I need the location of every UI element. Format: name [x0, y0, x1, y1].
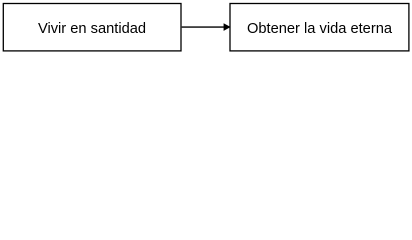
svg-text:Obtener la vida eterna: Obtener la vida eterna — [247, 21, 393, 37]
svg-text:Vivir en santidad: Vivir en santidad — [38, 21, 146, 37]
box: Obtener la vida eterna — [230, 4, 409, 51]
box: Vivir en santidad — [3, 4, 181, 51]
wire: arrow connector — [182, 24, 230, 31]
